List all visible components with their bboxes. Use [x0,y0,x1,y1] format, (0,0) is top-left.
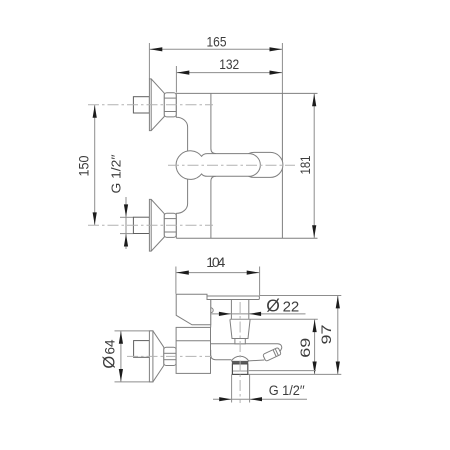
dim O64 extension top [115,330,154,332]
side wall pipe [134,341,150,358]
dim 181 arrow bottom [312,225,316,238]
body neck right edge (behind lever) [210,300,212,328]
spout upper outline [211,344,282,352]
dim O22 arrow right [249,312,261,316]
cartridge neck lines [230,300,232,319]
dim O22 leader line [212,313,306,315]
dim O64 arrow top [119,331,123,344]
svg-text:150: 150 [76,155,92,176]
centerline cartridge + outlet axis [239,302,241,403]
outlet collar band [231,361,248,364]
svg-text:97: 97 [318,324,334,344]
dim O64 extension bottom [115,381,154,383]
dim G1/2 front: leader line [125,197,127,249]
dim O64 arrow bottom [119,369,123,382]
body left edge upper [176,93,187,151]
dim 132 arrow right [270,71,283,75]
dim 104 arrow left [176,271,189,275]
svg-text:181: 181 [297,155,313,174]
dim G1/2 side: arrow left [219,397,231,401]
bottom inlet nut facet lines [164,218,176,220]
lever root side [176,294,211,325]
dim G1/2 front: extension bottom [120,233,134,235]
side wall flange rim line [152,331,154,382]
bottom inlet pipe [133,217,149,233]
top inlet flange [149,79,164,131]
centerline handle axis [168,164,295,166]
dim G1/2 side: arrow right [250,397,262,401]
dim 181 arrow top [312,94,316,107]
dim 132 extension line left [175,66,177,93]
dim 165 arrow right [270,47,283,51]
centerline side body axis [127,355,212,357]
dim 132 line [176,72,282,74]
spout underside right of outlet [249,359,265,362]
body top edge + extension to 181 [176,92,317,94]
body block side [176,327,210,373]
outlet dome [231,356,248,361]
dim 69 extension top (cap seam extended) [230,318,318,320]
step under grip [207,299,211,301]
bottom inlet flange rim line [150,199,152,251]
dim 165 extension line right / shared with 132 [281,43,283,93]
svg-text:G 1/2′′: G 1/2′′ [269,383,305,398]
dim G1/2 front: extension top [120,216,134,218]
dim G1/2 side: extension right [249,375,251,403]
button bump on neck edge [211,308,214,313]
centerline bottom inlet [88,224,213,226]
dim O64 line [120,331,122,382]
top inlet nut [164,93,176,117]
dim 181 line [313,93,315,238]
dim 97 arrow top [336,296,340,309]
dim G1/2 side: leader line [213,398,307,400]
dim 69 arrow bottom [313,362,317,375]
dim 69 line [314,319,316,374]
outlet thread chamfer line [233,370,247,372]
body right edge [281,93,283,238]
centerline top inlet [88,104,213,106]
dim 165 arrow left [150,47,163,51]
dim 104 extension right [259,267,261,296]
body left edge lower [176,180,187,239]
body bottom edge + extension to 181 [176,237,317,239]
side wall nut facet lines [164,352,176,354]
dim 104 arrow right [247,271,260,275]
dim 69 arrow top [313,320,317,333]
dim G1/2 front: arrow bottom [124,234,128,247]
dim 150 arrow bottom [93,212,97,225]
handle lever + ball union [176,151,260,180]
svg-text:165: 165 [207,33,227,49]
outlet thread [232,364,247,375]
svg-text:69: 69 [297,337,313,357]
dim 165 line [149,48,282,50]
top inlet nut facet lines [164,97,176,99]
side wall nut [164,347,176,365]
dim G1/2 side: extension left [231,375,233,403]
cartridge cap cone [230,319,250,338]
dim 97 line [337,296,339,375]
body seam line [176,340,210,342]
top inlet pipe [133,97,149,113]
side wall flange [149,331,163,382]
bottom inlet nut [164,213,176,237]
top inlet flange rim line [150,79,152,131]
dim O22 arrow left [219,312,231,316]
dim 97 arrow bottom [336,362,340,375]
dim 104 extension left [175,267,177,294]
dim 165 extension line left [148,43,150,79]
extension line at thread chamfer level [249,370,316,372]
lever grip side [207,296,259,300]
dim 150 line [94,105,96,226]
svg-text:132: 132 [219,56,239,72]
cap base ring [235,339,245,344]
dim 132 arrow left [177,71,190,75]
shared bottom extension (69/97) [232,373,342,375]
dim 104 line [176,272,260,274]
svg-text:104: 104 [206,254,225,270]
svg-text:Ø 64: Ø 64 [101,339,119,369]
dim 97 extension top [260,295,342,297]
svg-text:G 1/2′′: G 1/2′′ [108,154,123,194]
aerator (tilted) [263,347,282,361]
svg-text:Ø 22: Ø 22 [266,295,299,315]
dim G1/2 front: arrow top [124,204,128,217]
dim 150 arrow top [93,105,97,118]
body inner column edge lower with fillet [211,176,216,238]
body inner column edge upper with fillet [211,93,216,153]
spout under outline with fillet from body [211,350,232,360]
bottom inlet flange [149,199,164,251]
handle grip end (stadium) [242,152,283,177]
